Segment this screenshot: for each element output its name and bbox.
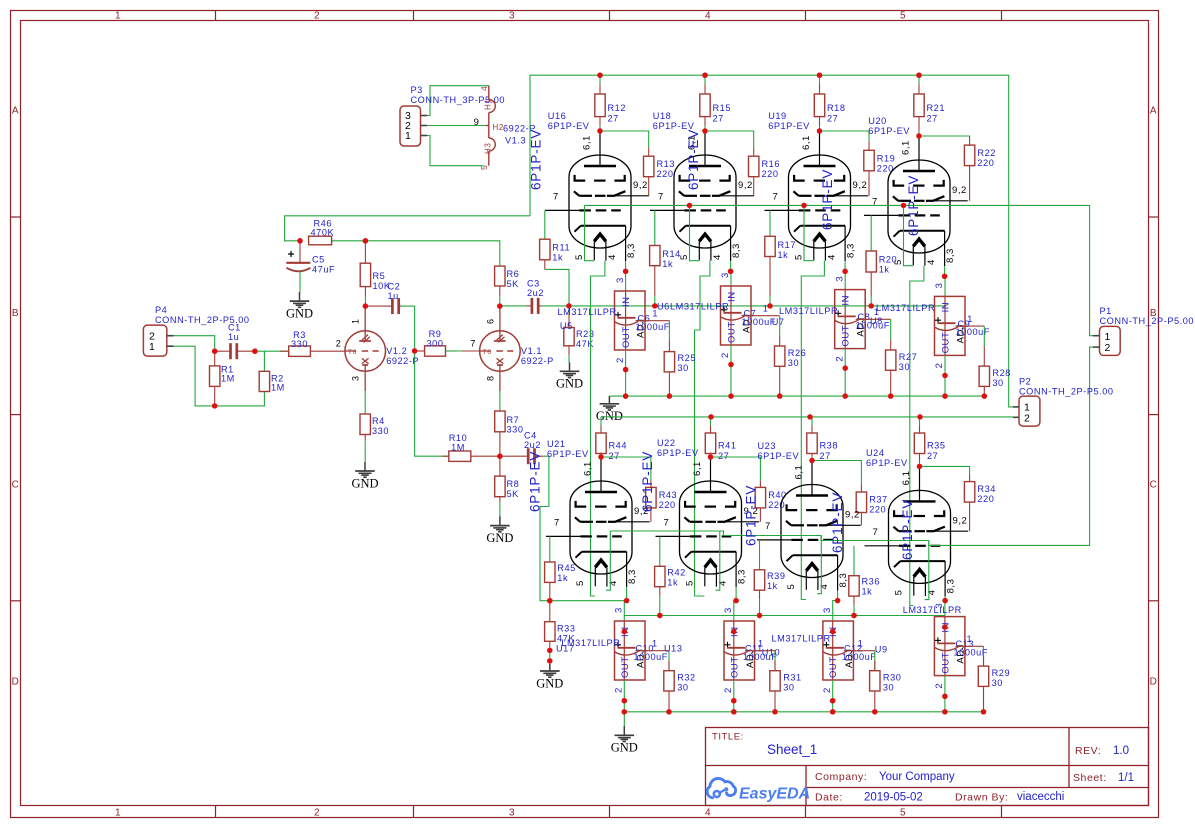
- svg-text:9,2: 9,2: [633, 180, 648, 191]
- capacitor C5: [286, 241, 335, 292]
- junction R7 bottom node: [497, 454, 502, 459]
- wire C1 to R3: [255, 350, 289, 352]
- wire R4 to ground: [364, 440, 366, 462]
- U9 pin labels: [934, 603, 945, 689]
- resistor R43 220: [646, 480, 678, 521]
- pentode U22: [656, 457, 760, 587]
- svg-text:OUT: OUT: [841, 325, 852, 347]
- svg-text:IN: IN: [841, 295, 852, 306]
- capacitor C13 1000uF: [935, 637, 988, 657]
- wire U24 cathode 8,3 to LM317 IN: [942, 597, 948, 630]
- junction C1 left: [212, 349, 217, 354]
- svg-text:Your Company: Your Company: [879, 771, 955, 783]
- wire U8 ADJ to resistor: [956, 314, 985, 347]
- wire R33 dot to ground: [549, 661, 551, 664]
- svg-text:6,1: 6,1: [583, 461, 594, 476]
- junction bottom rail R x983.5: [981, 709, 986, 714]
- wire R46 right to R6 top: [332, 241, 500, 266]
- svg-text:30: 30: [678, 363, 689, 373]
- wire U22 pin4 to bottom heater bus: [716, 531, 720, 590]
- wire U7 ADJ to resistor: [856, 307, 891, 340]
- junction heater bus U19 tap: [801, 203, 806, 208]
- junction grid bus R36 tap: [851, 613, 856, 618]
- connector P2: [1013, 377, 1114, 427]
- junction heater bus U20 tap: [901, 203, 906, 208]
- wire bus to R15: [704, 75, 706, 131]
- svg-text:3: 3: [351, 375, 361, 381]
- junction bottom plate bus x810: [807, 414, 812, 419]
- wire P4 pin2 to C1: [174, 336, 215, 352]
- svg-text:6P1P-EV: 6P1P-EV: [548, 121, 590, 131]
- wire U20 pin4 to U24 pin5: [910, 266, 924, 606]
- svg-text:5: 5: [794, 254, 805, 260]
- svg-text:R33: R33: [557, 624, 576, 634]
- U7 pin labels: [834, 276, 845, 362]
- svg-text:GND: GND: [351, 476, 378, 490]
- wire plate node to R13: [600, 131, 649, 147]
- svg-text:R9: R9: [429, 329, 442, 339]
- regulator U10 LM317 box: [823, 621, 855, 680]
- label U21: [547, 439, 589, 459]
- wire R17 to grid bus: [769, 296, 771, 306]
- connector P1: [1093, 306, 1194, 355]
- svg-text:5: 5: [575, 580, 586, 586]
- svg-text:Drawn By:: Drawn By:: [955, 792, 1008, 804]
- wire U5 OUT to rail: [623, 350, 628, 399]
- svg-text:6,1: 6,1: [794, 465, 805, 480]
- svg-text:6,1: 6,1: [692, 461, 703, 476]
- svg-text:220: 220: [659, 500, 676, 510]
- svg-text:1: 1: [967, 634, 973, 644]
- wire U20 cathode 8,3 to LM317 IN: [942, 266, 947, 296]
- wire grid lead to R14: [654, 210, 656, 245]
- svg-text:3: 3: [615, 277, 626, 283]
- wire B+ riser and top bus to P2 pin1: [530, 75, 1013, 407]
- connector P4: [143, 305, 249, 356]
- wire C2 to R10 node: [402, 306, 449, 456]
- svg-text:B: B: [12, 308, 19, 319]
- wire U8 OUT to rail: [942, 355, 947, 398]
- junction U21 plate node: [598, 454, 603, 459]
- pentode U20: [864, 136, 968, 266]
- svg-text:R4: R4: [372, 416, 385, 426]
- resistor R9: [415, 329, 456, 356]
- svg-text:R30: R30: [883, 673, 902, 683]
- svg-text:1M: 1M: [271, 383, 285, 393]
- svg-text:8,3: 8,3: [846, 243, 857, 258]
- label U22: [657, 438, 699, 458]
- resistor R13 220: [644, 147, 676, 196]
- svg-text:4: 4: [827, 254, 838, 260]
- svg-text:6,1: 6,1: [901, 471, 912, 486]
- label U20: [868, 116, 910, 136]
- svg-text:4: 4: [705, 808, 711, 819]
- resistor R21 27: [914, 85, 945, 132]
- svg-text:8,3: 8,3: [838, 573, 849, 588]
- EasyEDA logo: [707, 778, 810, 802]
- svg-text:9,2: 9,2: [853, 180, 868, 191]
- junction top bus R15: [702, 73, 707, 78]
- svg-text:V1.3: V1.3: [505, 136, 526, 146]
- junction U19 plate node: [817, 128, 822, 133]
- wire P3 pin1 to V1.3 pin5: [427, 136, 484, 166]
- svg-text:1k: 1k: [662, 259, 673, 269]
- svg-text:U6: U6: [657, 302, 670, 312]
- svg-text:1000uF: 1000uF: [636, 322, 670, 332]
- wire R2 riser: [263, 351, 265, 371]
- label U8 LM317LILPR: [870, 303, 935, 326]
- net label 6P1P-EV vertical 7: [744, 485, 759, 546]
- Drawn By label: [955, 792, 1008, 804]
- svg-text:R11: R11: [552, 243, 570, 253]
- svg-text:R12: R12: [608, 103, 627, 113]
- svg-text:R42: R42: [667, 567, 686, 577]
- svg-text:R10: R10: [449, 433, 468, 443]
- wire U22 cathode 8,3 to LM317 IN: [731, 587, 739, 634]
- wire U19 cathode 8,3 to LM317 IN: [842, 261, 847, 290]
- wire U10 OUT to rail: [830, 680, 835, 715]
- svg-text:T6: T6: [483, 349, 492, 356]
- junction grid bus R42 tap: [657, 613, 662, 618]
- Date label: [815, 792, 843, 804]
- svg-text:220: 220: [977, 158, 994, 168]
- svg-text:1000uF: 1000uF: [634, 652, 668, 662]
- svg-text:H1: H1: [483, 99, 492, 110]
- junction bottom rail R x669: [666, 709, 671, 714]
- svg-text:GND: GND: [611, 741, 638, 755]
- svg-text:1: 1: [149, 341, 155, 353]
- junction bottom plate bus x920: [917, 414, 922, 419]
- svg-text:R44: R44: [609, 441, 628, 451]
- svg-text:4: 4: [607, 254, 618, 260]
- junction R33 gnd a: [547, 648, 552, 653]
- wire U21 cathode 8,3 to LM317 IN: [622, 587, 630, 634]
- junction grid bus R17 tap: [767, 303, 772, 308]
- junction grid bus R39 tap: [757, 613, 762, 618]
- svg-text:R39: R39: [767, 571, 786, 581]
- Date value: [864, 792, 923, 804]
- svg-text:5K: 5K: [507, 489, 520, 499]
- svg-text:CONN-TH_2P-P5.00: CONN-TH_2P-P5.00: [1019, 387, 1114, 397]
- svg-text:OUT: OUT: [941, 332, 952, 354]
- label U23: [758, 441, 800, 461]
- resistor R28 30: [979, 346, 1011, 396]
- triode V1.1: [470, 306, 553, 391]
- U13 pin labels: [723, 607, 734, 693]
- svg-text:GND: GND: [596, 409, 623, 423]
- label U18: [653, 111, 695, 131]
- junction grid bus R20 tap: [869, 303, 874, 308]
- wire R36 to grid bus: [853, 605, 855, 615]
- svg-text:viacecchi: viacecchi: [1017, 791, 1064, 803]
- wire bus to R12: [599, 75, 601, 131]
- net label 6P1P-EV vertical 9: [900, 499, 915, 560]
- wire grid bus to R23: [568, 306, 570, 313]
- svg-text:5K: 5K: [507, 279, 520, 289]
- wire R20 to grid bus: [870, 296, 872, 306]
- svg-text:5: 5: [786, 584, 797, 590]
- svg-text:Sheet:: Sheet:: [1073, 772, 1107, 784]
- svg-text:C5: C5: [312, 255, 325, 265]
- U6 pin labels: [720, 272, 731, 358]
- svg-text:R19: R19: [877, 153, 896, 163]
- junction U22 plate node: [708, 454, 713, 459]
- ground under R8: [486, 517, 513, 545]
- svg-text:47uF: 47uF: [312, 265, 335, 275]
- Drawn By value: [1017, 791, 1064, 803]
- svg-text:1k: 1k: [557, 573, 568, 583]
- svg-text:7: 7: [554, 518, 560, 529]
- junction V1.2 plate node: [363, 303, 368, 308]
- svg-text:TITLE:: TITLE:: [712, 732, 744, 743]
- title block grid: [706, 728, 1149, 806]
- svg-text:1k: 1k: [552, 253, 563, 263]
- resistor R45 1k: [545, 562, 576, 601]
- svg-text:2: 2: [615, 357, 626, 363]
- svg-text:2: 2: [934, 363, 945, 369]
- svg-text:330: 330: [372, 426, 389, 436]
- svg-text:R14: R14: [662, 249, 681, 259]
- svg-text:T6: T6: [348, 349, 357, 356]
- svg-text:5: 5: [685, 580, 696, 586]
- ground bottom rail: [611, 726, 638, 755]
- svg-text:47K: 47K: [576, 339, 594, 349]
- svg-text:C1: C1: [228, 323, 241, 333]
- junction U20 plate node: [916, 133, 921, 138]
- svg-text:8,3: 8,3: [737, 569, 748, 584]
- ground under R23: [556, 362, 583, 390]
- Company label: [815, 771, 867, 783]
- svg-text:CONN-TH_2P-P5.00: CONN-TH_2P-P5.00: [1100, 316, 1195, 326]
- svg-text:30: 30: [677, 683, 688, 693]
- junction U23 plate node: [809, 458, 814, 463]
- U10 pin labels: [822, 607, 833, 693]
- svg-text:REV:: REV:: [1075, 745, 1101, 757]
- wire plate node to C3: [500, 305, 526, 307]
- resistor R25 30: [664, 341, 696, 396]
- svg-text:2: 2: [614, 687, 625, 693]
- svg-text:7: 7: [773, 192, 779, 203]
- junction R26 rail: [777, 393, 782, 398]
- resistor R39 1k: [754, 570, 785, 599]
- svg-text:P2: P2: [1019, 377, 1031, 387]
- junction V1.1 plate node: [497, 303, 502, 308]
- wire R14 to grid bus: [654, 296, 656, 306]
- resistor R18 27: [814, 85, 845, 127]
- svg-text:27: 27: [827, 114, 838, 124]
- svg-text:2: 2: [314, 11, 320, 22]
- wire U16 cathode 8,3 to LM317 IN: [623, 261, 628, 291]
- svg-text:2u2: 2u2: [527, 288, 544, 298]
- wire grid lead to R11: [544, 210, 546, 239]
- svg-text:9,2: 9,2: [953, 515, 968, 526]
- wire bottom heater bus to P1 pin2: [610, 347, 1093, 545]
- svg-text:220: 220: [657, 169, 674, 179]
- regulator U9 LM317 box: [934, 617, 966, 676]
- pentode U24: [865, 466, 969, 596]
- svg-text:8,3: 8,3: [945, 248, 956, 263]
- resistor R6: [495, 266, 520, 296]
- svg-text:2019-05-02: 2019-05-02: [864, 792, 923, 804]
- svg-text:U22: U22: [657, 438, 676, 448]
- resistor R8: [495, 456, 520, 502]
- svg-text:GND: GND: [286, 306, 313, 320]
- svg-text:R16: R16: [762, 159, 781, 169]
- wire U6 ADJ to resistor: [742, 304, 780, 337]
- svg-text:1: 1: [858, 639, 864, 649]
- junction U18 plate node: [702, 128, 707, 133]
- svg-text:H3: H3: [483, 143, 492, 154]
- wire bus to R21: [918, 75, 920, 136]
- resistor R29 30: [978, 656, 1010, 712]
- svg-text:30: 30: [899, 362, 910, 372]
- svg-text:C: C: [1150, 480, 1158, 491]
- wire R9 to V1.1 grid: [446, 350, 480, 352]
- regulator U6 LM317 box: [721, 286, 753, 345]
- wire rail to bottom ground: [623, 712, 625, 727]
- svg-text:7: 7: [873, 527, 879, 538]
- svg-text:6,1: 6,1: [582, 135, 593, 150]
- wire plate node to R40: [711, 457, 761, 480]
- svg-text:6P1P-EV: 6P1P-EV: [868, 126, 910, 136]
- label U17: [556, 644, 575, 654]
- svg-text:1: 1: [652, 639, 658, 649]
- wire plate node to R34: [920, 466, 970, 474]
- label U24: [866, 448, 908, 468]
- capacitor C2: [365, 282, 402, 315]
- svg-text:1: 1: [405, 130, 411, 142]
- svg-text:OUT: OUT: [729, 656, 740, 678]
- svg-text:IN: IN: [941, 302, 952, 313]
- wire bottom plate bus to P2 pin2: [601, 416, 1013, 418]
- wire plate node to R19: [820, 131, 870, 141]
- svg-text:GND: GND: [486, 531, 513, 545]
- junction R33 gnd b: [547, 658, 552, 663]
- svg-text:4: 4: [718, 580, 729, 586]
- svg-text:6P1P-EV: 6P1P-EV: [768, 121, 810, 131]
- junction R27 rail: [888, 393, 893, 398]
- svg-text:2: 2: [314, 808, 320, 819]
- pentode U23: [757, 461, 861, 591]
- svg-text:5: 5: [479, 165, 489, 170]
- junction heater bus U18 tap: [687, 203, 692, 208]
- wire P3 pin3 to V1.3 pin4: [427, 86, 489, 116]
- svg-text:LM317LILPR: LM317LILPR: [903, 605, 962, 615]
- svg-text:R35: R35: [927, 441, 946, 451]
- wire U19 pin4 to U23 pin5: [801, 261, 824, 600]
- svg-text:P3: P3: [411, 85, 423, 95]
- svg-text:C2: C2: [388, 282, 401, 292]
- svg-text:8,3: 8,3: [946, 579, 957, 594]
- label U6 LM317LILPR: [657, 302, 729, 312]
- svg-text:27: 27: [820, 451, 831, 461]
- svg-text:A: A: [12, 106, 19, 117]
- resistor R46: [309, 219, 335, 245]
- wire B+ to R46 node: [285, 216, 530, 241]
- net label 6P1P-EV vertical 3: [820, 169, 835, 230]
- svg-text:V1.2: V1.2: [386, 346, 407, 356]
- svg-text:30: 30: [883, 683, 894, 693]
- svg-text:U18: U18: [653, 111, 672, 121]
- svg-text:R15: R15: [713, 103, 732, 113]
- svg-text:GND: GND: [536, 676, 563, 690]
- junction top bus R21: [916, 73, 921, 78]
- svg-text:R37: R37: [869, 495, 888, 505]
- wire R5 bottom to V1.2 plate node: [364, 296, 366, 306]
- tube heater V1.3: [474, 86, 536, 170]
- capacitor C8 1000uF: [835, 310, 890, 330]
- svg-text:R36: R36: [862, 577, 881, 587]
- svg-text:R26: R26: [788, 348, 807, 358]
- svg-text:6P1P-EV: 6P1P-EV: [900, 499, 915, 560]
- svg-text:27: 27: [713, 114, 724, 124]
- ground under R4: [351, 462, 378, 490]
- resistor R2: [259, 371, 285, 392]
- svg-text:6P1P-EV: 6P1P-EV: [686, 129, 701, 190]
- svg-text:LM317LILPR: LM317LILPR: [558, 307, 617, 317]
- wire bus to R18: [819, 75, 821, 131]
- wire U23 cathode 8,3 to LM317 IN: [830, 591, 840, 635]
- junction R45 bottom: [547, 598, 552, 603]
- svg-text:1000uF: 1000uF: [954, 647, 988, 657]
- wire P3 pin2 to V1.3 pin9: [427, 125, 486, 127]
- svg-text:5: 5: [894, 590, 905, 596]
- svg-text:220: 220: [768, 500, 785, 510]
- svg-text:OUT: OUT: [828, 656, 839, 678]
- svg-text:R34: R34: [977, 484, 996, 494]
- net label 6P1P-EV vertical 6: [640, 451, 655, 512]
- svg-text:R6: R6: [507, 269, 520, 279]
- svg-text:R29: R29: [992, 668, 1011, 678]
- wire bus to R41: [710, 417, 712, 457]
- svg-text:R41: R41: [718, 441, 737, 451]
- svg-text:220: 220: [762, 169, 779, 179]
- svg-text:1k: 1k: [667, 577, 678, 587]
- wire U10 ADJ to resistor: [844, 639, 875, 672]
- capacitor C11 1000uF: [725, 642, 778, 662]
- wire heater bus to U18 pin5: [690, 205, 700, 260]
- label U7 LM317LILPR: [772, 306, 838, 327]
- svg-text:2: 2: [934, 683, 945, 689]
- svg-text:OUT: OUT: [621, 326, 632, 348]
- wire U16 pin4 to U21 pin5: [591, 261, 605, 596]
- svg-text:LM317LILPR: LM317LILPR: [772, 634, 831, 644]
- svg-text:1k: 1k: [862, 587, 873, 597]
- label U10 LM317LILPR: [762, 634, 831, 658]
- wire C4 to bottom grid node: [540, 456, 624, 601]
- svg-text:9,2: 9,2: [952, 185, 967, 196]
- svg-text:9: 9: [474, 117, 480, 128]
- junction R1 bottom: [212, 403, 217, 408]
- svg-text:OUT: OUT: [940, 652, 951, 674]
- wire heater bus to U16 pin5: [585, 205, 595, 260]
- resistor R41 27: [705, 426, 736, 462]
- svg-text:5: 5: [900, 11, 906, 22]
- wire top grid bus: [541, 305, 945, 307]
- wire R23 to ground: [568, 355, 570, 362]
- svg-text:6P1P-EV: 6P1P-EV: [758, 451, 800, 461]
- junction V1.1 grid node: [412, 348, 417, 353]
- wire U6 OUT to rail: [728, 345, 733, 399]
- wire U13 ADJ to resistor: [745, 639, 775, 672]
- svg-text:8,3: 8,3: [626, 243, 637, 258]
- wire U18 pin4 to U22 pin5: [695, 261, 710, 596]
- junction R46 left: [297, 238, 302, 243]
- wire bus to R44: [600, 417, 602, 457]
- wire plate node to R22: [919, 135, 970, 137]
- svg-text:3: 3: [614, 607, 625, 613]
- wire R39 to grid bus: [759, 599, 761, 615]
